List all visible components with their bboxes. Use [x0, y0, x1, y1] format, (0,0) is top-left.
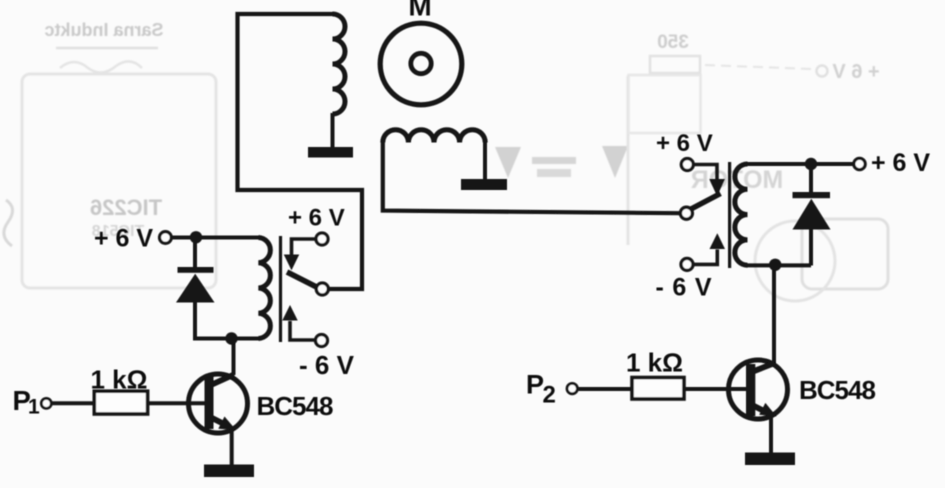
svg-text:BC548: BC548 [257, 391, 333, 421]
node +6V / D1 cathode junction [190, 231, 202, 243]
wire Q2 emitter to ground [769, 413, 773, 454]
terminal P1 [41, 398, 51, 408]
diode D1 [176, 239, 215, 340]
relay K2 core [728, 162, 731, 268]
relay K1 fixed contact -6V [282, 305, 327, 347]
wire L1 bottom to ground [331, 113, 335, 148]
svg-text:TIC226: TIC226 [90, 195, 162, 220]
wire K2 coil top to +6V terminal [747, 162, 854, 166]
diode D2 [793, 165, 831, 266]
relay K1 common contact [316, 283, 328, 295]
relay K2 coil [735, 164, 748, 265]
svg-text:BC548: BC548 [799, 375, 875, 405]
relay K1 core [279, 236, 282, 342]
relay K1 fixed contact +6V [284, 233, 328, 270]
relay K2 fixed contact -6V [681, 233, 725, 270]
svg-text:1: 1 [28, 396, 40, 419]
terminal +6V right [854, 158, 865, 169]
ground Q2 emitter [745, 453, 795, 466]
relay K1 coil [259, 238, 271, 339]
svg-text:+ 6 V: + 6 V [871, 149, 930, 177]
wire P2 to R2 [578, 387, 632, 391]
svg-text:1 kΩ: 1 kΩ [626, 348, 683, 378]
svg-text:- 6 V: - 6 V [656, 274, 713, 302]
relay K2 armature blade [691, 194, 721, 210]
svg-text:350: 350 [657, 32, 689, 53]
ground L1 [308, 147, 353, 158]
wire R2 to Q2 base [684, 387, 747, 391]
relay K2 fixed contact +6V [681, 159, 725, 197]
svg-text:+ 6 V: + 6 V [288, 205, 345, 232]
svg-text:M: M [408, 0, 431, 22]
node Q1 collector / K1 coil junction [225, 332, 237, 344]
transistor Q2 BC548 [729, 360, 876, 419]
wire R1 to Q1 base [147, 401, 206, 405]
stator coil L2 [383, 130, 485, 143]
label P1 [13, 385, 41, 419]
wire D1 anode to K1 coil bottom [193, 337, 260, 341]
wire P1 to R1 [52, 401, 96, 405]
wire Q1 collector up [232, 339, 236, 375]
transistor Q1 BC548 [189, 374, 333, 433]
wire K1 common to solenoid L1 (riser and top loop) [238, 14, 363, 289]
svg-text:P: P [526, 370, 544, 400]
resistor R2 value 1 kOhm [626, 348, 684, 400]
wire L2 right end to ground [483, 143, 487, 181]
ground L2 [461, 179, 507, 190]
svg-text:+ 6 V: + 6 V [656, 130, 713, 157]
terminal +6V left [160, 232, 172, 244]
svg-text:- 6 V: - 6 V [299, 350, 355, 380]
node K2 coil bottom / Q2 collector junction [769, 259, 781, 271]
svg-text:+ 6 V: + 6 V [94, 224, 153, 252]
motor M rotor [380, 23, 462, 105]
wire L2 left end to K2 common [383, 143, 680, 214]
relay K2 common contact [680, 207, 692, 219]
label P2 [526, 370, 556, 409]
wire K2 coil bottom to D2 anode [747, 263, 811, 267]
ground Q1 emitter [204, 465, 254, 478]
wire Q1 emitter to ground [230, 429, 234, 467]
node K2 coil top / D2 cathode [805, 158, 817, 170]
resistor R1 value 1 kOhm [91, 365, 148, 415]
svg-text:Sarna Induktc: Sarna Induktc [44, 20, 163, 40]
terminal P2 [567, 383, 577, 393]
wire +6V terminal to K1 coil top [171, 236, 260, 240]
svg-text:2: 2 [543, 382, 556, 409]
svg-text:1 kΩ: 1 kΩ [91, 365, 148, 395]
relay K1 armature blade [287, 272, 319, 288]
wire Q2 collector up [772, 266, 776, 365]
svg-text:+ 6 V: + 6 V [832, 61, 880, 83]
solenoid coil L1 [333, 14, 345, 114]
